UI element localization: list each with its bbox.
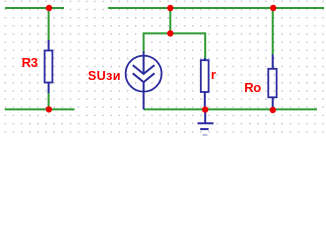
junction node bottom-middle bbox=[202, 106, 208, 112]
resistor R3 bbox=[45, 40, 53, 93]
wire R3 bottom vertical bbox=[48, 93, 50, 110]
svg-text:R3: R3 bbox=[22, 55, 38, 70]
wire Ro top vertical bbox=[272, 8, 274, 55]
wire vertical from top rail to bracket bbox=[169, 8, 171, 33]
wire bracket left vertical bbox=[143, 32, 145, 52]
wire top-left rail bbox=[5, 7, 64, 9]
svg-text:Ro: Ro bbox=[244, 80, 261, 95]
wire bracket right vertical bbox=[204, 32, 206, 58]
controlled source U1 SUzi bbox=[126, 52, 162, 110]
junction node bracket bbox=[167, 30, 173, 36]
svg-text:r: r bbox=[211, 67, 216, 82]
junction node bottom-right bbox=[270, 107, 276, 113]
ground bbox=[198, 109, 214, 135]
junction node top-middle bbox=[167, 5, 173, 11]
wire bottom-right rail bbox=[144, 108, 317, 110]
wire bracket horizontal bbox=[144, 32, 206, 34]
junction node bottom-left bbox=[46, 106, 52, 112]
resistor r bbox=[201, 58, 209, 109]
junction node top-right bbox=[270, 5, 276, 11]
resistor Ro bbox=[268, 55, 276, 110]
wire bottom-left rail bbox=[5, 108, 75, 110]
wire R3 top vertical bbox=[48, 8, 50, 41]
svg-text:SUзи: SUзи bbox=[88, 69, 121, 83]
wire top-right rail bbox=[108, 7, 324, 9]
junction node top-left bbox=[46, 5, 52, 11]
